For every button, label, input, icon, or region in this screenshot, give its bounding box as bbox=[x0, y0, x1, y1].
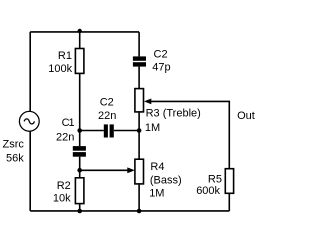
svg-text:1M: 1M bbox=[145, 122, 160, 134]
svg-text:C2: C2 bbox=[100, 97, 114, 109]
svg-text:R5: R5 bbox=[208, 174, 222, 186]
svg-text:R1: R1 bbox=[58, 50, 72, 62]
svg-text:1M: 1M bbox=[149, 188, 164, 200]
svg-text:R2: R2 bbox=[57, 180, 71, 192]
svg-text:C2: C2 bbox=[154, 48, 168, 60]
svg-text:10k: 10k bbox=[53, 193, 71, 205]
svg-text:Zsrc: Zsrc bbox=[3, 139, 25, 151]
svg-text:22n: 22n bbox=[56, 131, 74, 143]
svg-text:R3 (Treble): R3 (Treble) bbox=[146, 108, 201, 120]
svg-text:100k: 100k bbox=[48, 63, 72, 75]
svg-text:(Bass): (Bass) bbox=[150, 174, 182, 186]
svg-text:22n: 22n bbox=[98, 110, 116, 122]
svg-text:56k: 56k bbox=[6, 153, 24, 165]
svg-text:600k: 600k bbox=[196, 185, 220, 197]
svg-text:47p: 47p bbox=[152, 62, 170, 74]
svg-text:C1: C1 bbox=[62, 117, 75, 129]
svg-text:Out: Out bbox=[237, 110, 255, 122]
svg-text:R4: R4 bbox=[150, 161, 164, 173]
